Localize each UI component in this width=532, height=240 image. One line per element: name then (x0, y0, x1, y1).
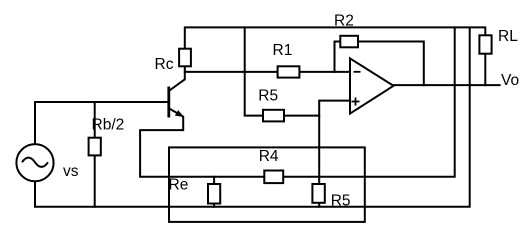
svg-text:RL: RL (498, 28, 518, 45)
source vs sine (22, 158, 48, 167)
resistor Re (208, 184, 220, 204)
svg-text:R2: R2 (334, 13, 354, 30)
op-amp U1 (350, 58, 394, 113)
resistor R1 (278, 66, 300, 77)
svg-text:R5: R5 (258, 88, 278, 105)
box: feedback network enclosure (169, 147, 365, 222)
wire: ground rail (vs bottom, along bottom, up right side to top rail) (35, 27, 470, 206)
wire: branch from top rail to R5 (mid) line (245, 27, 320, 115)
resistor Rb/2 (89, 138, 101, 156)
resistor RL (479, 35, 491, 53)
op-amp minus sign (354, 71, 361, 73)
wire: top rail with Rc lead and RL lead (185, 27, 486, 85)
svg-text:R5: R5 (331, 193, 351, 210)
transistor emitter arrowhead (175, 110, 184, 117)
op-amp plus sign (352, 98, 360, 106)
transistor Q1 (169, 79, 185, 117)
wire: op-amp output / Vo line (394, 84, 500, 86)
resistor Rc (179, 49, 191, 67)
svg-text:Re: Re (169, 177, 189, 194)
svg-text:Vo: Vo (501, 72, 519, 89)
svg-text:R1: R1 (273, 42, 293, 59)
wire: minus input line from Rc/collector node through R1 (185, 71, 350, 73)
transistor emitter diagonal (169, 108, 184, 117)
transistor collector diagonal (169, 79, 185, 91)
wire: emitter net down-left-down and along wire1 up to top rail (140, 27, 455, 176)
resistor R2 (340, 36, 358, 48)
resistor R5 (bottom) (312, 184, 324, 203)
resistor R4 (264, 171, 283, 184)
wire: Re branch (213, 177, 215, 207)
svg-text:vs: vs (63, 163, 79, 180)
wire: plus input line and R5 branch down to ground (319, 101, 350, 207)
svg-text:R4: R4 (259, 148, 279, 165)
wire: Rb/2 branch (94, 102, 96, 207)
transistor base bar (167, 87, 170, 118)
resistor R5 (mid) (263, 110, 284, 122)
svg-text:Rb/2: Rb/2 (92, 117, 125, 134)
wire: R2 feedback branch (335, 42, 424, 86)
wire: vs top lead to transistor base (35, 102, 168, 144)
source vs circle (16, 144, 53, 181)
svg-text:Rc: Rc (155, 56, 174, 73)
